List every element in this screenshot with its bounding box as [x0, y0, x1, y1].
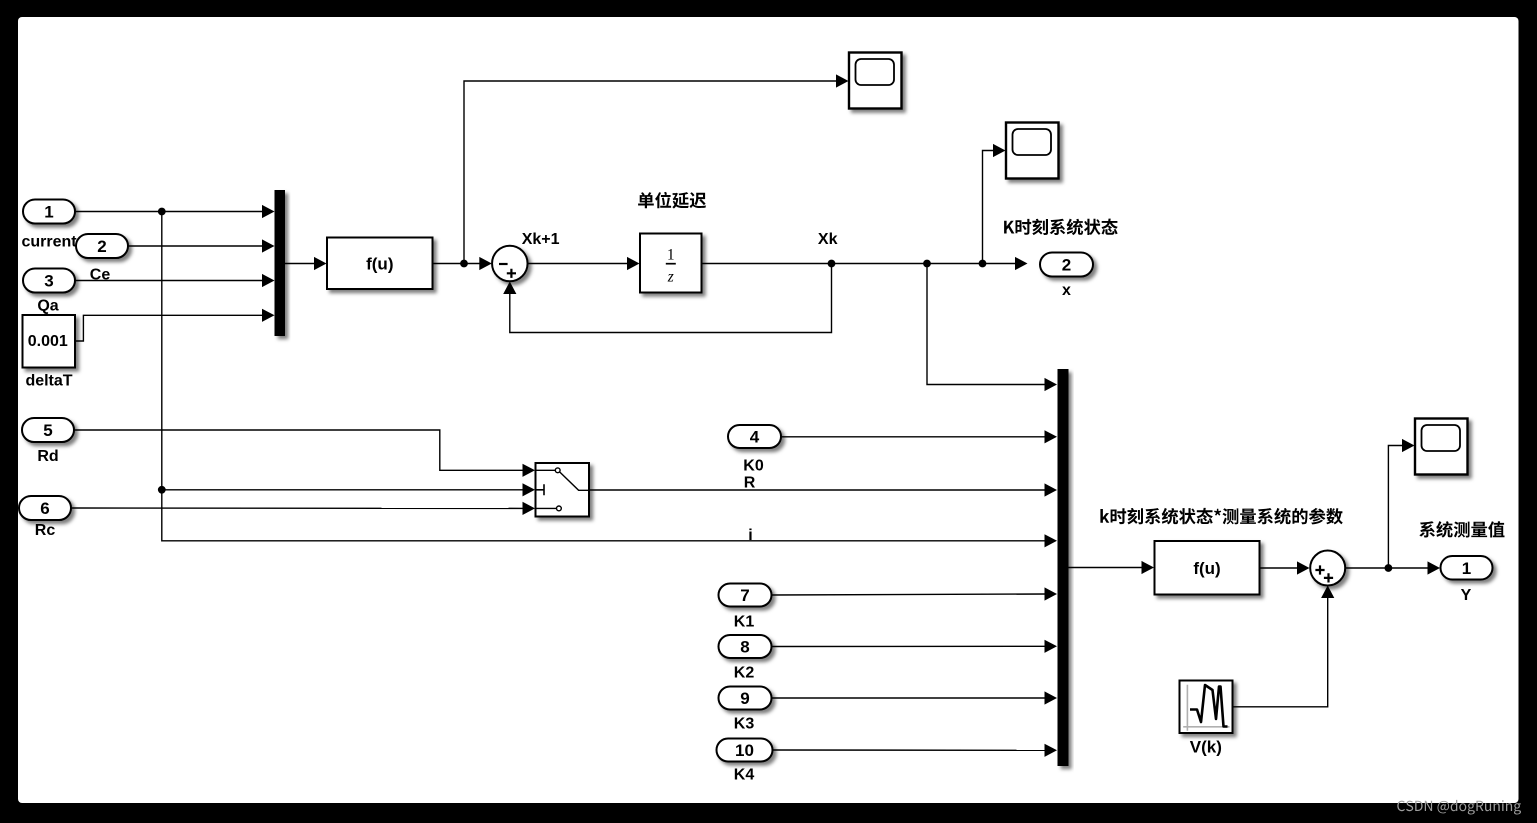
wire feedback Xk to sum S1 [510, 264, 832, 333]
svg-text:K0: K0 [743, 457, 764, 474]
svg-text:Y: Y [1461, 587, 1472, 604]
svg-text:0.001: 0.001 [28, 333, 68, 350]
svg-text:K2: K2 [734, 664, 755, 681]
svg-text:current: current [21, 234, 77, 251]
wire node F up to scope SC3 [1388, 446, 1407, 569]
wire node E to switch SW1 middle [162, 489, 528, 491]
wire unit delay to out port 2 [702, 263, 1021, 265]
mux M2 [1058, 369, 1069, 766]
mux M1 [275, 190, 286, 336]
constant block 0.001 [23, 315, 76, 368]
wire mux M1 to f(u) U1 [285, 263, 319, 265]
wire port2 to mux M1 [128, 245, 267, 247]
input port 6 [19, 496, 71, 520]
wire U1 to sum S1 [433, 263, 485, 265]
wire U2 to sum S2 [1260, 567, 1303, 569]
input port 7 [719, 584, 772, 607]
svg-text:Rc: Rc [35, 522, 56, 539]
wire port1 to mux M1 [75, 211, 267, 213]
svg-text:x: x [1062, 282, 1071, 299]
input port 10 [717, 739, 773, 762]
switch block SW1 [536, 463, 590, 517]
label K时刻系统状态 [1004, 219, 1118, 236]
input port 9 [719, 687, 772, 710]
junction dot node Xk feedback [828, 260, 836, 268]
label unit-delay 单位延迟 [638, 192, 706, 209]
wire port8 to mux M2 [772, 645, 1048, 647]
junction dot node D [979, 260, 987, 268]
function block U1 f(u) [327, 238, 433, 290]
svg-text:V(k): V(k) [1190, 738, 1222, 757]
sum S1 [492, 246, 528, 282]
svg-text:2: 2 [1062, 256, 1071, 275]
svg-text:8: 8 [740, 638, 749, 657]
wire node C down to mux M2 [927, 264, 1046, 385]
wire node A down and to mux M2 (signal i) [162, 212, 1047, 541]
unit delay block 1/z [640, 234, 702, 293]
svg-text:Xk: Xk [818, 231, 838, 248]
scope SC1 [849, 53, 902, 109]
wire node B up to scope SC1 [464, 81, 841, 264]
svg-text:f(u): f(u) [366, 255, 393, 274]
svg-text:6: 6 [40, 499, 49, 518]
input port 5 [22, 418, 74, 442]
svg-text:Qa: Qa [37, 298, 58, 315]
input port 4 [728, 425, 781, 448]
svg-text:i: i [748, 527, 752, 544]
junction dot node C [923, 260, 931, 268]
svg-text:1: 1 [1462, 559, 1471, 578]
svg-text:7: 7 [740, 586, 749, 605]
wire port6 to switch SW1 [71, 507, 528, 509]
label k时刻系统状态*测量系统的参数 [1100, 508, 1342, 525]
wire switch SW1 to mux M2 (signal R) [589, 489, 1047, 491]
svg-text:z: z [667, 269, 674, 286]
wire port7 to mux M2 [772, 594, 1048, 595]
svg-text:5: 5 [43, 421, 52, 440]
wire port4 to mux M2 [781, 436, 1047, 438]
wire V(k) to sum S2 [1233, 595, 1328, 707]
input port 8 [719, 635, 772, 658]
sum S2 plus sign 2 [1324, 573, 1333, 582]
junction dot node A [158, 208, 166, 216]
svg-text:f(u): f(u) [1193, 559, 1220, 578]
wire port5 to switch SW1 [74, 430, 528, 470]
svg-text:deltaT: deltaT [25, 372, 72, 389]
scope SC2 [1006, 123, 1059, 179]
svg-text:4: 4 [750, 428, 760, 447]
wire mux M2 to f(u) U2 [1069, 567, 1148, 569]
svg-text:Xk+1: Xk+1 [522, 231, 560, 248]
wire constant to mux M1 [75, 315, 267, 341]
svg-text:10: 10 [735, 741, 754, 760]
junction dot node F [1385, 564, 1393, 572]
output port 1 [1441, 556, 1493, 580]
input port 2 [76, 234, 128, 258]
wire sum S2 to out port 1 [1345, 567, 1433, 569]
label 系统测量值 [1419, 521, 1504, 538]
input port 1 [23, 200, 75, 224]
sum S1 minus sign [499, 263, 508, 265]
watermark CSDN @dogRuning [1397, 800, 1521, 815]
wire port3 to mux M1 [75, 280, 267, 282]
svg-text:Rd: Rd [37, 448, 58, 465]
svg-text:K3: K3 [734, 715, 755, 732]
sum S2 [1310, 551, 1345, 586]
function block U2 f(u) [1155, 541, 1260, 595]
svg-text:K4: K4 [734, 766, 755, 783]
svg-text:R: R [744, 474, 756, 491]
junction dot node E [158, 486, 166, 494]
sum S2 plus sign 1 [1315, 565, 1324, 574]
svg-text:1: 1 [667, 247, 675, 264]
wire sum S1 to unit delay [528, 263, 633, 265]
svg-text:9: 9 [740, 689, 749, 708]
svg-text:3: 3 [44, 272, 53, 291]
wire port10 to mux M2 [773, 749, 1048, 751]
output port 2 [1040, 253, 1093, 277]
svg-text:K1: K1 [734, 614, 755, 631]
scope SC3 [1415, 419, 1468, 475]
svg-text:2: 2 [97, 237, 106, 256]
wire node D up to scope SC2 [983, 151, 999, 264]
wire port9 to mux M2 [772, 697, 1048, 699]
sum S1 plus sign [507, 269, 516, 278]
svg-text:1: 1 [44, 203, 53, 222]
input port 3 [23, 269, 75, 293]
signal generator V(k) [1180, 681, 1233, 734]
junction dot node B [460, 260, 468, 268]
